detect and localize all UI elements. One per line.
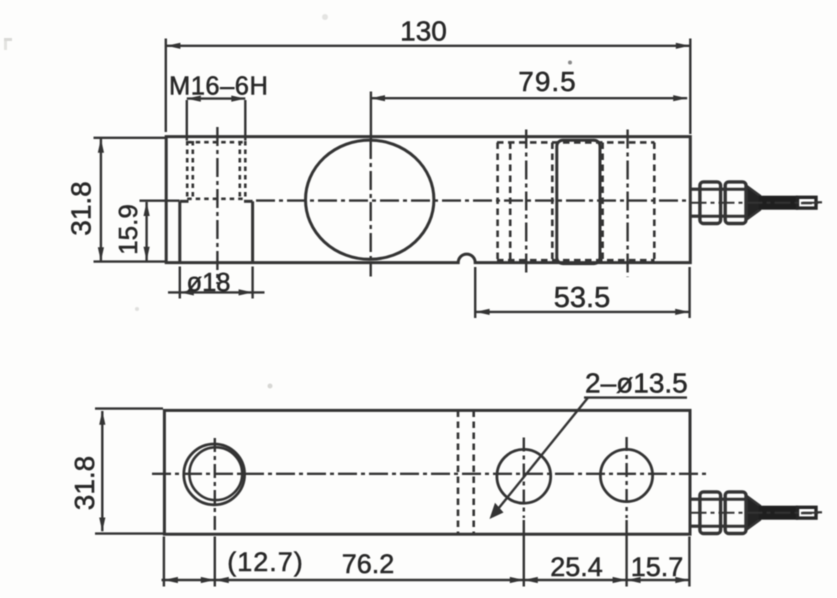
svg-text:ø18: ø18	[187, 269, 231, 297]
svg-text:M16–6H: M16–6H	[169, 73, 268, 101]
svg-text:31.8: 31.8	[69, 456, 100, 511]
svg-text:53.5: 53.5	[554, 282, 610, 314]
svg-text:25.4: 25.4	[550, 552, 603, 582]
svg-text:130: 130	[400, 16, 447, 47]
svg-text:15.7: 15.7	[631, 552, 684, 582]
svg-text:2–ø13.5: 2–ø13.5	[585, 368, 688, 399]
svg-text:15.9: 15.9	[113, 204, 143, 255]
svg-text:(12.7): (12.7)	[227, 547, 304, 577]
svg-text:76.2: 76.2	[342, 549, 395, 579]
svg-text:31.8: 31.8	[66, 181, 97, 236]
svg-text:79.5: 79.5	[518, 66, 577, 97]
